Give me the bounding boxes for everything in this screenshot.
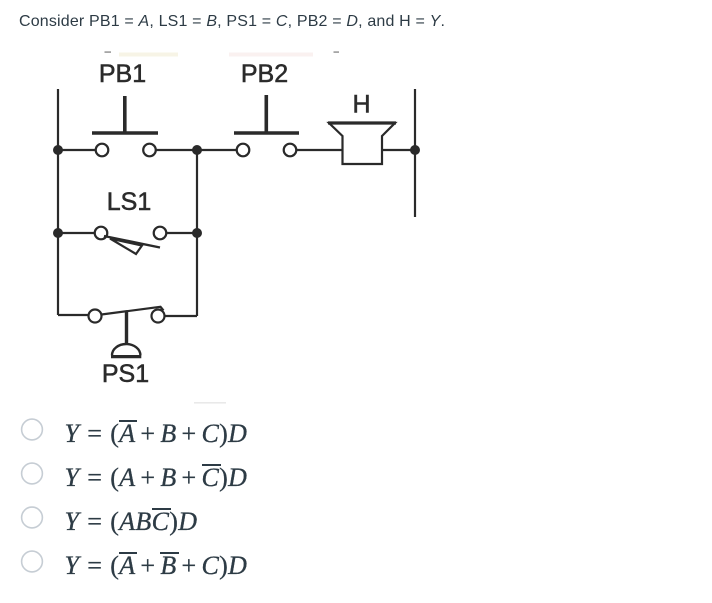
artifact smudge 2 [229,53,313,57]
artifact smudge 1 [119,53,178,57]
left rail [57,89,59,315]
pushbutton PB1 [92,96,158,156]
radio option A [22,419,43,440]
radio option B [22,463,43,484]
pressure switch PS1 [89,307,165,357]
wire rung2 left [58,232,95,234]
junction node rung2-left [53,228,63,238]
branch vertical wire [196,150,198,316]
artifact dashes bottom [194,402,226,404]
right rail [414,89,416,217]
pushbutton PB2 [234,95,299,156]
junction node rung1-left [53,145,63,155]
svg-text:H: H [352,91,370,119]
option A [0,419,400,463]
radio option C [22,507,43,528]
junction node rung1-branch [192,145,202,155]
artifact dash 2 [334,51,340,53]
wire rung1 right of PB2 [296,149,342,151]
wire rung3 left with corner [58,314,89,316]
junction node rung1-right rail [410,145,420,155]
horn H [328,123,396,164]
svg-text:PB1: PB1 [99,60,146,88]
junction node rung2-right [192,228,202,238]
option B [0,463,400,507]
radio option D [22,551,43,572]
wire rung1 horn to rail [382,149,415,151]
wire rung2 right [166,232,197,234]
wire rung3 right with corner [165,315,198,317]
artifact dash 1 [105,51,112,53]
svg-text:PB2: PB2 [241,60,288,88]
svg-text:PS1: PS1 [102,360,149,388]
header question text [19,11,445,33]
wire rung1 left [58,149,96,151]
svg-text:LS1: LS1 [107,188,151,216]
option D [0,551,400,595]
wire rung1 middle [156,149,237,151]
option C [0,507,400,551]
limit switch LS1 [95,227,167,254]
